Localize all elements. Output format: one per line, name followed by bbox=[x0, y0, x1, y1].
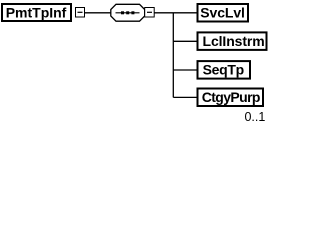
branch wire to CtgyPurp bbox=[173, 96, 196, 98]
svg-text:SeqTp: SeqTp bbox=[203, 62, 244, 78]
svg-text:0..1: 0..1 bbox=[244, 110, 265, 124]
svg-text:PmtTpInf: PmtTpInf bbox=[6, 5, 67, 21]
collapse box (minus) on PmtTpInf bbox=[76, 8, 85, 18]
sequence line with dots bbox=[116, 12, 140, 14]
wire compositor to SvcLvl (through trunk junction) bbox=[154, 12, 196, 14]
trunk vertical wire bbox=[172, 13, 174, 98]
branch wire to SeqTp bbox=[173, 69, 196, 71]
branch wire to LclInstrm bbox=[173, 40, 196, 42]
element box LclInstrm bbox=[198, 32, 267, 50]
svg-text:CtgyPurp: CtgyPurp bbox=[202, 89, 260, 105]
wire collapse box to sequence compositor bbox=[85, 12, 112, 14]
element box SvcLvl bbox=[198, 4, 249, 22]
collapse box (minus) on sequence compositor bbox=[145, 8, 155, 18]
element box PmtTpInf bbox=[2, 4, 71, 21]
svg-text:SvcLvl: SvcLvl bbox=[200, 5, 245, 21]
element box SeqTp bbox=[198, 61, 251, 79]
svg-text:LclInstrm: LclInstrm bbox=[203, 33, 265, 49]
element box CtgyPurp bbox=[198, 89, 264, 107]
sequence compositor (octagon) bbox=[111, 4, 145, 21]
